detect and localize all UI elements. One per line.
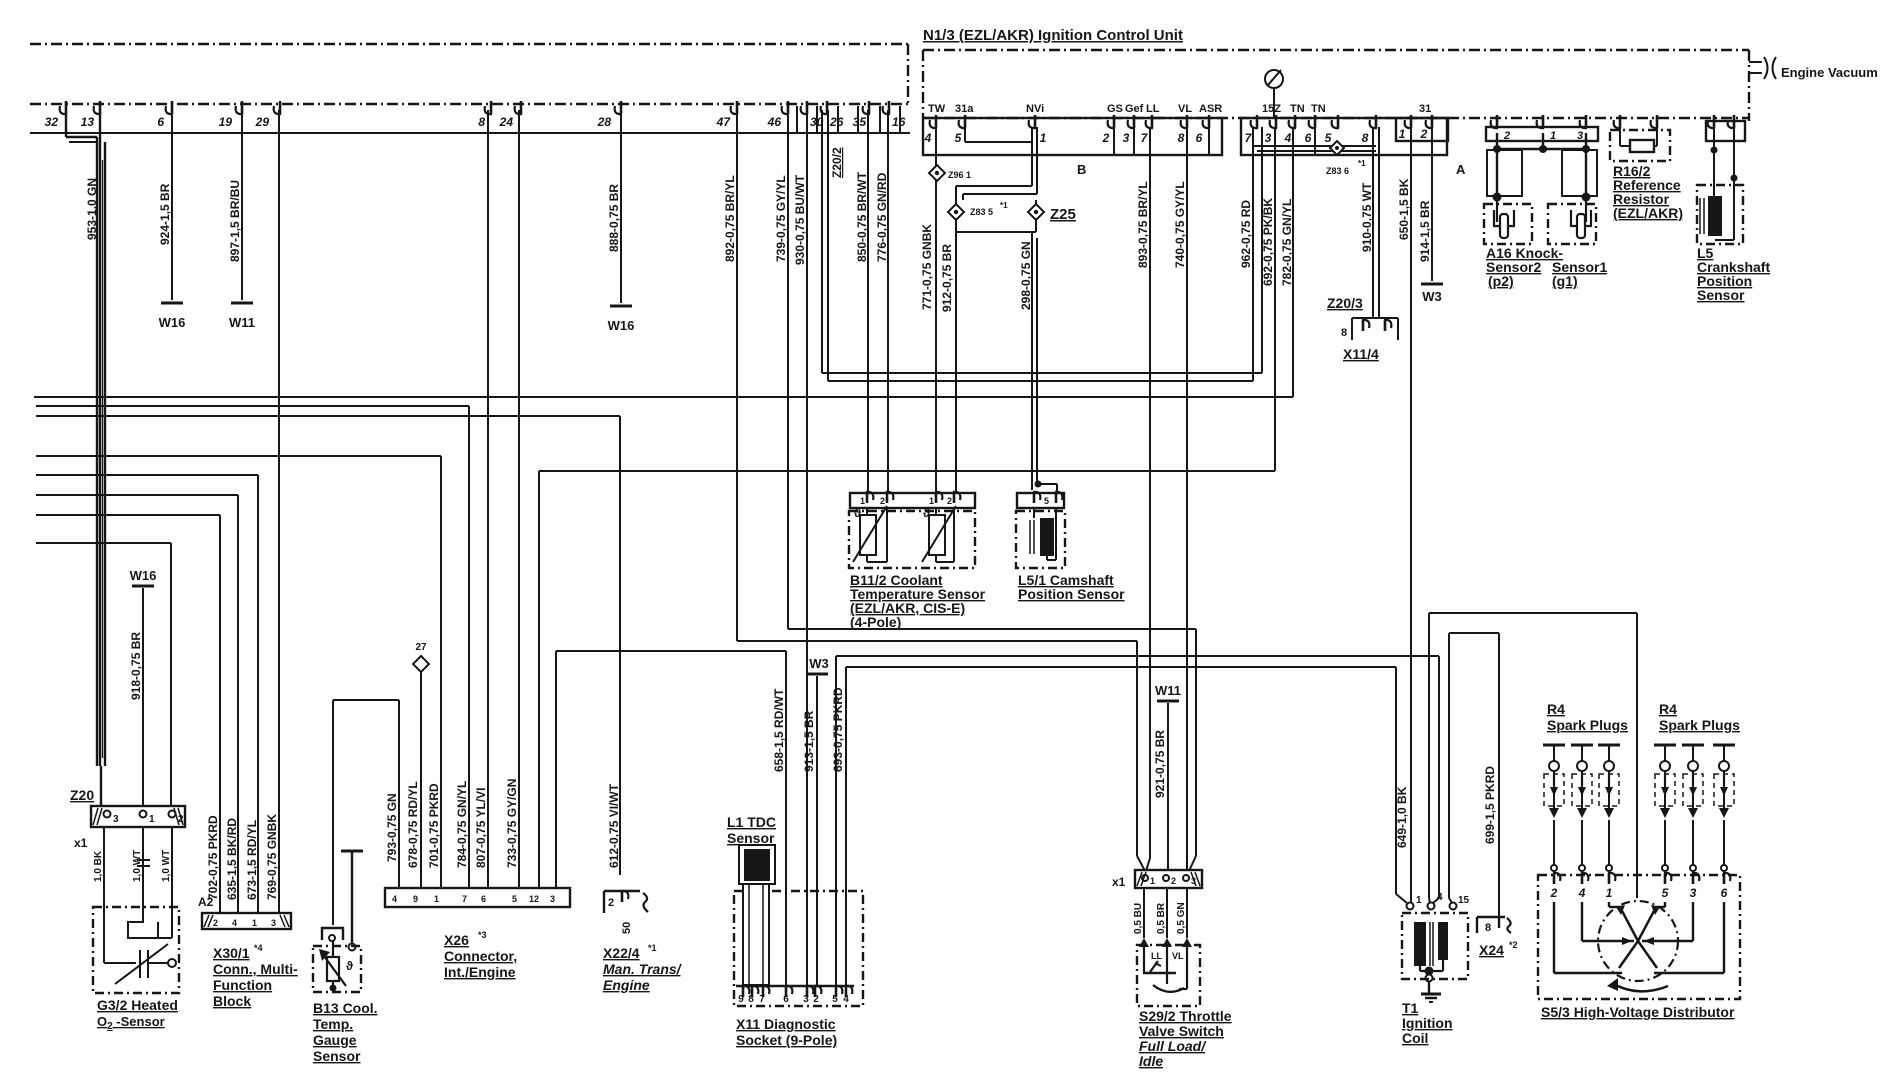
- svg-text:4: 4: [924, 131, 932, 145]
- svg-text:1: 1: [1606, 886, 1613, 900]
- svg-text:28: 28: [597, 115, 612, 129]
- svg-text:678-0,75 RD/YL: 678-0,75 RD/YL: [406, 781, 420, 868]
- svg-text:W11: W11: [1155, 683, 1181, 698]
- svg-text:X11/4: X11/4: [1343, 346, 1379, 362]
- svg-text:X22/4: X22/4: [603, 945, 640, 961]
- svg-text:Z20: Z20: [70, 787, 94, 803]
- svg-text:6: 6: [481, 894, 486, 904]
- svg-text:Z96 1: Z96 1: [948, 170, 971, 180]
- svg-text:TN: TN: [1311, 103, 1326, 115]
- svg-text:953-1,0 GN: 953-1,0 GN: [85, 178, 99, 240]
- svg-text:GS: GS: [1107, 103, 1123, 115]
- svg-text:12: 12: [529, 894, 539, 904]
- svg-text:8: 8: [478, 115, 485, 129]
- svg-text:Z20/3: Z20/3: [1327, 295, 1363, 311]
- svg-text:Sensor: Sensor: [727, 830, 775, 846]
- svg-text:930-0,75 BU/WT: 930-0,75 BU/WT: [793, 174, 807, 265]
- svg-text:3: 3: [550, 894, 555, 904]
- svg-text:6: 6: [1721, 886, 1728, 900]
- svg-text:2: 2: [608, 897, 614, 909]
- svg-text:918-0,75 BR: 918-0,75 BR: [129, 632, 143, 700]
- svg-text:8: 8: [748, 994, 754, 1005]
- svg-text:Connector,: Connector,: [444, 948, 517, 964]
- svg-text:8: 8: [1362, 131, 1369, 145]
- svg-text:3: 3: [1577, 130, 1583, 142]
- svg-text:733-0,75 GY/GN: 733-0,75 GY/GN: [505, 779, 519, 868]
- svg-text:1,0 WT: 1,0 WT: [161, 850, 172, 882]
- svg-text:649-1,0 BK: 649-1,0 BK: [1395, 786, 1409, 848]
- svg-text:2: 2: [178, 814, 184, 825]
- svg-text:Idle: Idle: [1139, 1053, 1163, 1069]
- svg-text:(g1): (g1): [1552, 273, 1578, 289]
- svg-text:913-1,5 BR: 913-1,5 BR: [802, 710, 816, 772]
- svg-text:3: 3: [1123, 131, 1130, 145]
- svg-text:612-0,75 VI/WT: 612-0,75 VI/WT: [607, 783, 621, 868]
- svg-text:47: 47: [716, 115, 732, 129]
- svg-text:26: 26: [829, 115, 844, 129]
- svg-text:4: 4: [1284, 131, 1292, 145]
- svg-text:Block: Block: [213, 993, 251, 1009]
- svg-text:673-1,5 RD/YL: 673-1,5 RD/YL: [245, 820, 259, 900]
- svg-text:B13 Cool.: B13 Cool.: [313, 1000, 378, 1016]
- svg-text:x1: x1: [74, 836, 88, 850]
- svg-text:W16: W16: [130, 568, 157, 583]
- svg-text:(4-Pole): (4-Pole): [850, 614, 901, 630]
- svg-text:6: 6: [157, 115, 164, 129]
- svg-text:4: 4: [1437, 892, 1443, 903]
- svg-text:VL: VL: [1178, 103, 1192, 115]
- svg-text:13: 13: [81, 115, 95, 129]
- svg-text:16: 16: [892, 115, 906, 129]
- svg-text:784-0,75 GN/YL: 784-0,75 GN/YL: [455, 781, 469, 868]
- svg-text:2: 2: [1550, 886, 1558, 900]
- svg-text:1: 1: [860, 496, 865, 506]
- svg-text:*1: *1: [1000, 201, 1008, 210]
- svg-text:Engine: Engine: [603, 977, 650, 993]
- svg-text:7: 7: [462, 894, 467, 904]
- svg-text:897-1,5 BR/BU: 897-1,5 BR/BU: [228, 180, 242, 262]
- svg-text:Conn., Multi-: Conn., Multi-: [213, 961, 298, 977]
- svg-text:693-0,75 PKRD: 693-0,75 PKRD: [831, 687, 845, 772]
- svg-text:0,5 BR: 0,5 BR: [1156, 902, 1167, 934]
- svg-text:Engine Vacuum: Engine Vacuum: [1781, 65, 1878, 80]
- svg-text:VL: VL: [1172, 951, 1184, 961]
- svg-text:Man. Trans/: Man. Trans/: [603, 961, 683, 977]
- svg-text:B: B: [1077, 162, 1086, 177]
- svg-text:*1: *1: [1358, 159, 1366, 168]
- svg-text:Sensor: Sensor: [1697, 287, 1745, 303]
- svg-text:ϑ: ϑ: [346, 959, 353, 973]
- svg-text:793-0,75 GN: 793-0,75 GN: [385, 793, 399, 862]
- svg-text:924-1,5 BR: 924-1,5 BR: [158, 183, 172, 245]
- svg-text:2: 2: [1171, 876, 1176, 886]
- svg-text:31a: 31a: [955, 103, 974, 115]
- svg-text:8: 8: [1341, 327, 1347, 339]
- svg-text:2: 2: [880, 496, 885, 506]
- svg-text:(EZL/AKR): (EZL/AKR): [1613, 205, 1683, 221]
- svg-text:(p2): (p2): [1488, 273, 1514, 289]
- svg-text:912-0,75 BR: 912-0,75 BR: [940, 244, 954, 312]
- svg-text:NVi: NVi: [1026, 103, 1044, 115]
- svg-text:699-1,5 PKRD: 699-1,5 PKRD: [1483, 766, 1497, 844]
- svg-text:771-0,75 GNBK: 771-0,75 GNBK: [920, 224, 934, 310]
- svg-text:T1: T1: [1402, 1000, 1419, 1016]
- svg-text:Spark Plugs: Spark Plugs: [1547, 717, 1628, 733]
- svg-text:ϑ: ϑ: [923, 506, 930, 520]
- svg-text:W11: W11: [229, 315, 255, 330]
- svg-text:Z25: Z25: [1050, 206, 1076, 223]
- svg-text:658-1,5 RD/WT: 658-1,5 RD/WT: [772, 688, 786, 772]
- svg-text:2: 2: [1420, 127, 1428, 141]
- svg-text:893-0,75 BR/YL: 893-0,75 BR/YL: [1136, 181, 1150, 268]
- svg-text:3: 3: [1265, 131, 1272, 145]
- svg-text:Coil: Coil: [1402, 1030, 1428, 1046]
- svg-text:850-0,75 BR/WT: 850-0,75 BR/WT: [855, 171, 869, 262]
- svg-text:50: 50: [621, 922, 633, 934]
- svg-text:Valve Switch: Valve Switch: [1139, 1023, 1224, 1039]
- svg-text:X11 Diagnostic: X11 Diagnostic: [736, 1016, 836, 1032]
- svg-text:19: 19: [219, 115, 233, 129]
- svg-text:2: 2: [213, 918, 218, 928]
- svg-text:739-0,75 GY/YL: 739-0,75 GY/YL: [774, 175, 788, 262]
- svg-text:298-0,75 GN: 298-0,75 GN: [1019, 241, 1033, 310]
- svg-text:769-0,75 GNBK: 769-0,75 GNBK: [265, 814, 279, 900]
- svg-text:6: 6: [1196, 131, 1203, 145]
- svg-text:Position Sensor: Position Sensor: [1018, 586, 1125, 602]
- svg-text:2: 2: [947, 496, 952, 506]
- svg-text:1: 1: [1550, 130, 1556, 142]
- svg-text:S29/2 Throttle: S29/2 Throttle: [1139, 1008, 1232, 1024]
- svg-text:32: 32: [45, 115, 59, 129]
- svg-text:*1: *1: [648, 943, 657, 953]
- svg-text:740-0,75 GY/YL: 740-0,75 GY/YL: [1173, 181, 1187, 268]
- svg-text:5: 5: [1662, 886, 1669, 900]
- svg-text:W16: W16: [159, 315, 186, 330]
- svg-text:6: 6: [1305, 131, 1312, 145]
- svg-text:5: 5: [1044, 496, 1049, 506]
- svg-text:892-0,75 BR/YL: 892-0,75 BR/YL: [723, 175, 737, 262]
- svg-text:46: 46: [767, 115, 782, 129]
- svg-text:35: 35: [853, 115, 867, 129]
- svg-text:Sensor: Sensor: [313, 1048, 361, 1064]
- svg-text:650-1,5 BK: 650-1,5 BK: [1397, 178, 1411, 240]
- svg-text:1,0 BK: 1,0 BK: [93, 850, 104, 882]
- svg-text:702-0,75 PKRD: 702-0,75 PKRD: [206, 815, 220, 900]
- svg-text:2: 2: [1503, 130, 1510, 142]
- svg-text:776-0,75 GN/RD: 776-0,75 GN/RD: [875, 172, 889, 262]
- svg-text:1: 1: [1040, 131, 1047, 145]
- svg-text:5: 5: [832, 994, 838, 1005]
- svg-text:4: 4: [843, 994, 849, 1005]
- svg-text:A: A: [1456, 162, 1466, 177]
- svg-text:701-0,75 PKRD: 701-0,75 PKRD: [427, 783, 441, 868]
- svg-text:Socket (9-Pole): Socket (9-Pole): [736, 1032, 837, 1048]
- svg-text:807-0,75 YL/VI: 807-0,75 YL/VI: [474, 788, 488, 869]
- svg-text:6: 6: [783, 994, 789, 1005]
- svg-text:W3: W3: [809, 656, 829, 671]
- svg-text:0,5 BU: 0,5 BU: [1133, 903, 1144, 934]
- svg-text:*2: *2: [1509, 940, 1518, 950]
- svg-text:8: 8: [1178, 131, 1185, 145]
- svg-text:Spark Plugs: Spark Plugs: [1659, 717, 1740, 733]
- svg-text:782-0,75 GN/YL: 782-0,75 GN/YL: [1280, 199, 1294, 286]
- svg-text:Full Load/: Full Load/: [1139, 1038, 1207, 1054]
- svg-text:2: 2: [813, 994, 819, 1005]
- svg-text:910-0,75 WT: 910-0,75 WT: [1360, 182, 1374, 252]
- svg-text:2: 2: [1102, 131, 1110, 145]
- svg-text:635-1,5 BK/RD: 635-1,5 BK/RD: [225, 818, 239, 900]
- svg-text:1: 1: [929, 496, 934, 506]
- svg-text:S5/3 High-Voltage Distributor: S5/3 High-Voltage Distributor: [1541, 1004, 1735, 1020]
- svg-text:31: 31: [1419, 103, 1431, 115]
- svg-text:Function: Function: [213, 977, 272, 993]
- svg-text:Z20/2: Z20/2: [830, 147, 844, 178]
- svg-text:R4: R4: [1547, 701, 1565, 717]
- svg-text:888-0,75 BR: 888-0,75 BR: [607, 184, 621, 252]
- svg-text:L1 TDC: L1 TDC: [727, 814, 776, 830]
- svg-text:LL: LL: [1151, 951, 1162, 961]
- svg-text:N1/3 (EZL/AKR) Ignition Contr: N1/3 (EZL/AKR) Ignition Control Unit: [923, 27, 1183, 44]
- svg-text:x1: x1: [1112, 875, 1126, 889]
- svg-text:*3: *3: [478, 930, 487, 940]
- svg-text:Temp.: Temp.: [313, 1016, 353, 1032]
- svg-text:692-0,75 PK/BK: 692-0,75 PK/BK: [1261, 198, 1275, 286]
- svg-text:*4: *4: [254, 943, 263, 953]
- svg-text:914-1,5 BR: 914-1,5 BR: [1418, 200, 1432, 262]
- svg-text:TN: TN: [1290, 103, 1305, 115]
- svg-text:1: 1: [1416, 895, 1422, 906]
- svg-text:1: 1: [149, 814, 155, 825]
- svg-text:Z83 5: Z83 5: [970, 207, 993, 217]
- svg-text:1: 1: [1399, 127, 1406, 141]
- svg-text:ASR: ASR: [1199, 103, 1222, 115]
- svg-text:W3: W3: [1422, 289, 1442, 304]
- svg-text:ϑ: ϑ: [854, 506, 861, 520]
- svg-text:29: 29: [255, 115, 270, 129]
- svg-text:W16: W16: [608, 318, 635, 333]
- svg-text:1,0 WT: 1,0 WT: [132, 850, 143, 882]
- svg-text:4: 4: [392, 894, 397, 904]
- svg-text:Z83 6: Z83 6: [1326, 166, 1349, 176]
- svg-text:X26: X26: [444, 932, 469, 948]
- svg-text:4: 4: [232, 918, 237, 928]
- svg-text:4: 4: [1578, 886, 1586, 900]
- svg-text:962-0,75 RD: 962-0,75 RD: [1239, 200, 1253, 268]
- svg-text:3: 3: [1690, 886, 1697, 900]
- svg-text:3: 3: [803, 994, 809, 1005]
- svg-text:5: 5: [512, 894, 517, 904]
- svg-text:X24: X24: [1479, 942, 1504, 958]
- svg-text:0,5 GN: 0,5 GN: [1176, 902, 1187, 934]
- svg-text:5: 5: [1325, 131, 1332, 145]
- svg-text:9: 9: [413, 894, 418, 904]
- svg-text:5: 5: [955, 131, 962, 145]
- svg-text:9: 9: [738, 994, 744, 1005]
- svg-text:15Z: 15Z: [1262, 103, 1281, 115]
- svg-text:Gef: Gef: [1125, 103, 1144, 115]
- svg-text:1: 1: [252, 918, 257, 928]
- svg-text:3: 3: [1191, 876, 1196, 886]
- svg-text:Gauge: Gauge: [313, 1032, 357, 1048]
- svg-text:TW: TW: [928, 103, 946, 115]
- svg-text:R4: R4: [1659, 701, 1677, 717]
- svg-text:24: 24: [499, 115, 514, 129]
- svg-text:Ignition: Ignition: [1402, 1015, 1453, 1031]
- svg-text:LL: LL: [1146, 103, 1160, 115]
- svg-text:7: 7: [759, 994, 765, 1005]
- svg-text:27: 27: [415, 642, 427, 653]
- svg-text:3: 3: [113, 814, 119, 825]
- svg-text:3: 3: [271, 918, 276, 928]
- svg-text:8: 8: [1485, 922, 1491, 934]
- svg-text:921-0,75 BR: 921-0,75 BR: [1153, 730, 1167, 798]
- svg-text:1: 1: [434, 894, 439, 904]
- svg-text:G3/2 Heated: G3/2 Heated: [97, 997, 178, 1013]
- svg-text:Int./Engine: Int./Engine: [444, 964, 516, 980]
- svg-text:X30/1: X30/1: [213, 945, 250, 961]
- svg-text:15: 15: [1458, 895, 1470, 906]
- svg-text:1: 1: [1150, 876, 1155, 886]
